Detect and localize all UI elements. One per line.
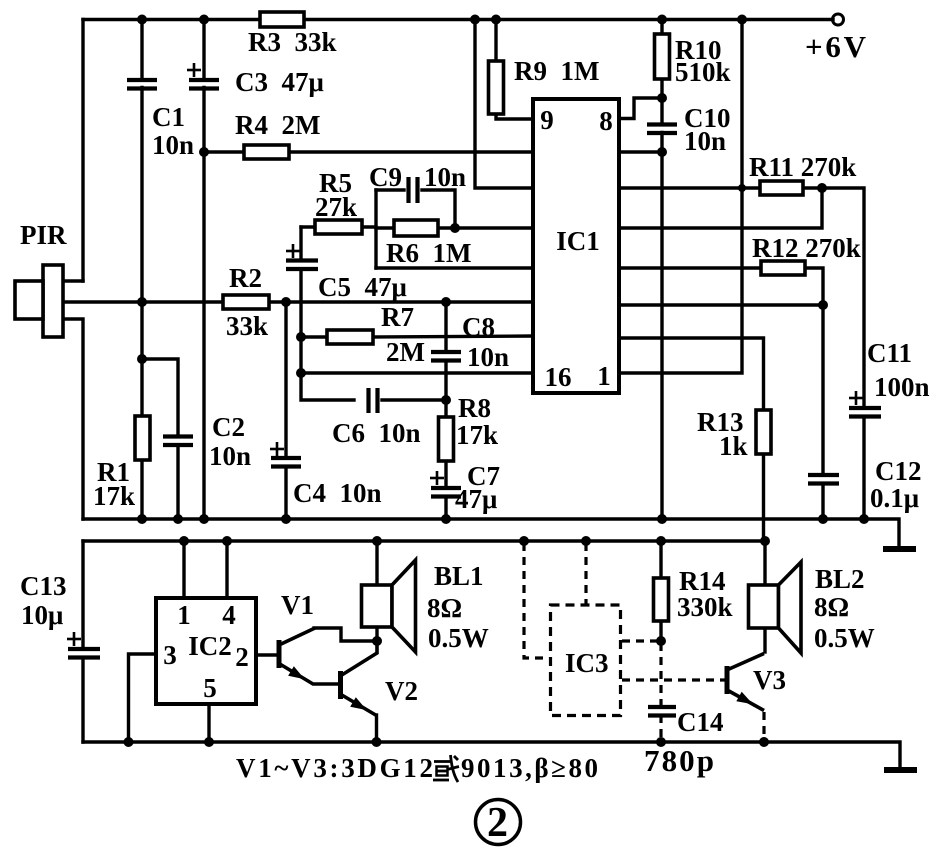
- resistor R4: [244, 145, 289, 159]
- wire dashed C14 bottom lead: [659, 715, 662, 741]
- wire dashed V3 emitter to ground rail: [762, 712, 765, 741]
- svg-text:R2: R2: [229, 263, 262, 293]
- wire R6 leads to IC1 pin 12: [376, 226, 394, 229]
- wire lower left vertical through C13: [81, 541, 84, 647]
- op-amp U1 / IC1 box: [533, 99, 619, 393]
- svg-text:8Ω: 8Ω: [814, 592, 849, 622]
- svg-text:2: 2: [235, 642, 249, 672]
- wire IC1 pin 2 to R13: [619, 338, 764, 410]
- svg-text:C12: C12: [875, 456, 922, 486]
- node C6/C8/R8: [441, 395, 451, 405]
- svg-text:3: 3: [163, 640, 177, 670]
- wire R2 to IC1 pin 14: [269, 300, 533, 303]
- wire lower section top rail: [83, 539, 765, 542]
- svg-text:10μ: 10μ: [21, 600, 63, 630]
- resistor R14: [654, 578, 669, 621]
- svg-text:BL1: BL1: [434, 561, 484, 591]
- wire V1 collector jog to BL1 node: [314, 628, 377, 641]
- svg-text:R12 270k: R12 270k: [752, 233, 861, 263]
- svg-text:5: 5: [203, 673, 217, 703]
- wire C9 top branch: [376, 188, 404, 191]
- wire C1 branch vertical: [140, 20, 143, 79]
- svg-text:C4 10n: C4 10n: [293, 478, 382, 508]
- capacitor C12: [808, 473, 839, 477]
- +6V terminal: [833, 14, 844, 25]
- wire R6/C9 loop left vertical: [374, 190, 377, 268]
- resistor R2: [223, 295, 269, 309]
- svg-text:IC3: IC3: [565, 648, 609, 678]
- svg-text:C6 10n: C6 10n: [332, 418, 421, 448]
- svg-text:1: 1: [597, 361, 611, 391]
- svg-text:1: 1: [177, 600, 191, 630]
- resistor R5: [315, 220, 362, 234]
- node junction dots top rail: [137, 15, 147, 25]
- polarity + of C4: [270, 448, 284, 451]
- wire PIR signal to R2: [63, 300, 223, 303]
- figure number circle: [476, 800, 521, 845]
- PIR sensor body: [43, 265, 63, 337]
- svg-text:9013,β≥80: 9013,β≥80: [461, 753, 598, 783]
- svg-text:10n: 10n: [209, 441, 251, 471]
- transistor Q1 / V1: [277, 640, 282, 668]
- capacitor C3: [189, 78, 219, 82]
- capacitor C4: [271, 456, 301, 460]
- node signal wire junctions: [137, 297, 147, 307]
- wire dashed drop to IC3 left pin: [524, 543, 549, 658]
- svg-text:27k: 27k: [315, 192, 357, 222]
- wire R14 top lead: [659, 541, 662, 578]
- polarity + of C5: [286, 250, 300, 253]
- svg-text:2: 2: [487, 800, 508, 846]
- svg-text:10n: 10n: [424, 162, 466, 192]
- node pin16 tap: [296, 368, 306, 378]
- wire C3/R4 branch vertical: [202, 20, 205, 79]
- node R11 output: [817, 183, 827, 193]
- svg-text:33k: 33k: [226, 311, 268, 341]
- capacitor C11: [849, 406, 881, 410]
- svg-text:C1: C1: [152, 102, 185, 132]
- wire IC1 pin 1 to +6V: [619, 20, 742, 374]
- wire BL2 bottom lead to V3 collector: [763, 628, 766, 652]
- wire dashed drop to IC3 top pin: [584, 543, 587, 604]
- wire V2 emitter to ground rail: [375, 715, 378, 742]
- wire R5 leads: [301, 225, 315, 228]
- svg-text:C2: C2: [212, 412, 245, 442]
- op-amp U3 / IC3 dashed box: [551, 605, 621, 716]
- svg-text:330k: 330k: [677, 592, 733, 622]
- svg-text:10n: 10n: [467, 342, 509, 372]
- op-amp U2 / IC2 box: [156, 598, 256, 704]
- wire R11 out to C11 branch: [803, 188, 864, 406]
- wire C5 vertical with R7/C6 taps: [299, 227, 302, 258]
- svg-text:C13: C13: [20, 571, 67, 601]
- wire PIR top pin: [63, 279, 83, 282]
- capacitor C2: [163, 434, 193, 438]
- svg-text:8Ω: 8Ω: [427, 593, 462, 623]
- wire R13 bottom to lower rail: [762, 454, 765, 541]
- svg-text:C9: C9: [369, 162, 402, 192]
- node R6/C9 output: [450, 223, 460, 233]
- svg-text:17k: 17k: [93, 481, 135, 511]
- glyph huo (Chinese): [433, 755, 459, 782]
- wire IC2 pin 4: [225, 541, 228, 598]
- resistor R11: [760, 181, 803, 195]
- wire IC1 pin 4 to R12: [619, 266, 761, 269]
- node R4 tap: [199, 147, 209, 157]
- wire IC1 pin 6 to R11: [619, 186, 760, 189]
- resistor R10: [655, 34, 670, 79]
- svg-text:10n: 10n: [684, 126, 726, 156]
- svg-text:C8: C8: [462, 312, 495, 342]
- wire C8/C6 node through R8 and C7 to ground: [444, 400, 447, 417]
- ground lower right: [884, 767, 917, 773]
- node C10 to pin7: [657, 147, 667, 157]
- wire loop bottom to IC1 pin 13: [376, 266, 533, 269]
- capacitor C10: [647, 122, 677, 126]
- svg-text:R6 1M: R6 1M: [386, 238, 471, 268]
- wire R12 out wrap: [805, 268, 823, 305]
- wire IC2 pin 1: [182, 541, 185, 598]
- capacitor C14: [648, 705, 676, 709]
- wire IC1 pin 8 step to R10/C10 node: [619, 98, 662, 119]
- capacitor C6: [366, 388, 370, 413]
- svg-text:8: 8: [599, 106, 613, 136]
- resistor R12: [761, 261, 805, 275]
- polarity + of C13: [67, 638, 81, 641]
- svg-text:V1: V1: [281, 590, 314, 620]
- capacitor C1: [127, 78, 157, 82]
- wire IC2 pin 2 to V1 base: [256, 653, 277, 656]
- speaker BL2: [749, 585, 779, 628]
- wire C8 vertical: [444, 302, 447, 350]
- svg-text:780p: 780p: [644, 743, 714, 778]
- svg-text:510k: 510k: [675, 57, 731, 87]
- svg-text:V1~V3:3DG12: V1~V3:3DG12: [236, 753, 433, 783]
- svg-text:R7: R7: [381, 302, 414, 332]
- resistor R7: [327, 330, 373, 344]
- ground upper right: [883, 546, 916, 552]
- node bottom rail junctions: [124, 737, 134, 747]
- node R10/C10/pin8: [657, 93, 667, 103]
- wire to IC1 pin 16: [301, 371, 533, 374]
- resistor R1: [135, 416, 150, 460]
- wire +6V top rail: [83, 18, 260, 21]
- node R7 tap: [296, 332, 306, 342]
- svg-text:0.5W: 0.5W: [814, 623, 875, 653]
- svg-text:0.5W: 0.5W: [428, 623, 489, 653]
- capacitor C8: [431, 350, 461, 354]
- node BL1/V1/V2 collector: [372, 636, 382, 646]
- wire R7 to IC1 pin 15: [301, 335, 327, 338]
- resistor R8: [439, 417, 454, 461]
- capacitor C7: [431, 486, 461, 490]
- wire +6V drop to IC1 pin 11: [475, 20, 533, 189]
- svg-text:V3: V3: [753, 665, 786, 695]
- resistor R9: [489, 61, 504, 114]
- polarity + of C3: [187, 69, 201, 72]
- wire C2 branch: [142, 359, 178, 434]
- svg-text:0.1μ: 0.1μ: [870, 483, 919, 513]
- svg-text:C3 47μ: C3 47μ: [235, 67, 324, 97]
- svg-text:17k: 17k: [456, 420, 498, 450]
- svg-text:10n: 10n: [152, 130, 194, 160]
- svg-text:R3 33k: R3 33k: [248, 27, 337, 57]
- transistor Q3 / V3: [725, 666, 730, 694]
- svg-text:+6V: +6V: [805, 29, 867, 64]
- wire dashed IC3 to R14/C14 node: [622, 639, 658, 642]
- wire IC2 pin 3: [129, 654, 157, 742]
- svg-text:V2: V2: [385, 676, 418, 706]
- wire IC2 pin 5: [207, 704, 210, 742]
- speaker BL1: [362, 585, 393, 627]
- polarity + of C7: [430, 477, 444, 480]
- wire R9 leads to IC1 pin 9: [494, 20, 497, 62]
- svg-text:R8: R8: [458, 393, 491, 423]
- wire IC1 pin 5 wrap to R11 out: [619, 188, 822, 228]
- wire BL2 top lead: [763, 542, 766, 585]
- svg-text:C14: C14: [677, 707, 724, 737]
- capacitor C13: [68, 647, 100, 651]
- wire R14 bottom lead: [659, 621, 662, 641]
- svg-text:BL2: BL2: [815, 564, 865, 594]
- svg-text:47μ: 47μ: [455, 484, 497, 514]
- capacitor C5: [286, 258, 318, 262]
- resistor R6: [394, 220, 438, 236]
- node R11 input at +6V drop: [738, 184, 746, 192]
- wire R10 lead from rail: [660, 20, 663, 35]
- transistor Q2 / V2: [338, 671, 343, 699]
- svg-text:R9 1M: R9 1M: [514, 56, 599, 86]
- wire BL1 top lead: [375, 541, 378, 585]
- node lower rail junctions: [179, 536, 189, 546]
- wire R4 to IC1 pin 10: [204, 150, 244, 153]
- wire IC1 pin 3 wrap and C12 branch: [619, 305, 823, 473]
- wire BL1 bottom lead: [375, 627, 378, 641]
- svg-text:2M: 2M: [386, 337, 425, 367]
- svg-text:1k: 1k: [719, 431, 748, 461]
- wire C10 to IC1 pin 7 and down to ground: [660, 98, 663, 123]
- svg-text:IC1: IC1: [556, 226, 600, 256]
- polarity + of C11: [849, 397, 863, 400]
- svg-text:C5 47μ: C5 47μ: [318, 272, 407, 302]
- wire left vertical from +6V rail to PIR top pin: [81, 20, 84, 282]
- resistor R13: [756, 410, 771, 454]
- svg-text:R4 2M: R4 2M: [235, 110, 320, 140]
- svg-text:100n: 100n: [874, 372, 930, 402]
- wire PIR bottom pin to ground rail: [63, 319, 83, 519]
- svg-text:16: 16: [545, 362, 572, 392]
- resistor R3: [260, 12, 304, 27]
- svg-text:PIR: PIR: [20, 220, 67, 250]
- wire C4 branch: [284, 302, 287, 456]
- node R14/C14/IC3: [656, 636, 666, 646]
- capacitor C9: [406, 177, 410, 203]
- svg-text:R11 270k: R11 270k: [749, 152, 856, 182]
- wire bottom ground rail: [83, 742, 900, 768]
- node R1/C2 split: [137, 354, 147, 364]
- svg-text:4: 4: [222, 600, 236, 630]
- node R12 output: [818, 300, 828, 310]
- wire upper ground rail: [83, 519, 899, 547]
- wire dashed C14 top lead: [659, 643, 662, 705]
- svg-text:IC2: IC2: [188, 631, 232, 661]
- wire dashed IC3 to V3 base: [622, 678, 725, 681]
- svg-text:C11: C11: [867, 338, 912, 368]
- svg-text:9: 9: [540, 105, 554, 135]
- node upper ground rail junctions: [137, 514, 147, 524]
